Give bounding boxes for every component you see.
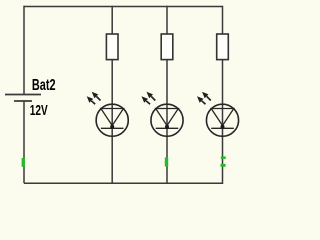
- svg-text:Bat2: Bat2: [32, 76, 56, 93]
- svg-text:12V: 12V: [30, 102, 48, 118]
